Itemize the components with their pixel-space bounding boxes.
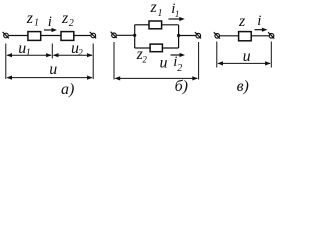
terminal left (diagram c) xyxy=(214,32,220,38)
svg-text:z: z xyxy=(150,0,158,16)
wire xyxy=(179,35,196,37)
svg-text:1: 1 xyxy=(34,18,39,29)
label a) xyxy=(61,81,74,98)
tick left (diagram c) xyxy=(216,42,218,68)
label u2 xyxy=(71,40,83,58)
resistor z2 (diagram b) xyxy=(150,44,162,52)
label i1 xyxy=(171,1,179,19)
terminal right (diagram b) xyxy=(195,32,201,38)
svg-text:u: u xyxy=(243,48,251,65)
label u (diagram c) xyxy=(243,48,251,65)
wire bottom branch right xyxy=(162,47,178,49)
wire xyxy=(220,35,238,37)
wire top branch left xyxy=(135,24,149,26)
current arrow i (diagram a) xyxy=(44,28,57,32)
tick right (diagram c) xyxy=(270,42,272,68)
dimension u1 (diagram a) xyxy=(6,53,52,57)
label i (diagram c) xyxy=(257,13,261,29)
current arrow i2 (diagram b) xyxy=(171,53,186,57)
terminal left (diagram b) xyxy=(111,32,117,38)
svg-text:2: 2 xyxy=(142,55,147,65)
resistor z2 (diagram a) xyxy=(61,32,74,41)
node left (diagram b) xyxy=(133,34,136,37)
current arrow i (diagram c) xyxy=(255,28,268,32)
dimension u (diagram b) xyxy=(115,76,199,80)
wire bottom branch left xyxy=(135,47,150,49)
terminal left (diagram a) xyxy=(3,32,9,38)
svg-text:2: 2 xyxy=(78,48,83,58)
label z1 xyxy=(26,10,39,29)
label i2 xyxy=(173,54,182,74)
label u (diagram b) xyxy=(160,55,168,72)
svg-text:а): а) xyxy=(61,81,74,98)
svg-text:u: u xyxy=(160,55,168,72)
svg-text:z: z xyxy=(238,13,246,30)
label z2 (diagram b) xyxy=(136,46,148,64)
svg-text:1: 1 xyxy=(26,48,31,59)
node right (diagram b) xyxy=(177,34,180,37)
resistor z1 (diagram a) xyxy=(28,32,41,41)
tick right (diagram a) xyxy=(92,44,94,80)
tick left (diagram a) xyxy=(5,44,7,80)
terminal right (diagram c) xyxy=(268,32,274,38)
label u (diagram a) xyxy=(49,61,57,78)
svg-text:i: i xyxy=(48,14,52,30)
current arrow i1 (diagram b) xyxy=(169,17,185,21)
svg-text:i: i xyxy=(257,13,261,29)
svg-text:u: u xyxy=(49,61,57,78)
terminal right (diagram a) xyxy=(90,32,96,38)
tick middle (diagram a) xyxy=(51,44,53,59)
dimension u2 (diagram a) xyxy=(53,53,93,57)
label z1 (diagram b) xyxy=(150,0,163,19)
resistor z (diagram c) xyxy=(239,32,252,41)
wire xyxy=(9,35,28,37)
svg-text:в): в) xyxy=(237,78,249,95)
tick right (diagram b) xyxy=(198,42,200,80)
wire top branch right xyxy=(162,24,179,26)
label i xyxy=(48,14,52,30)
tick left (diagram b) xyxy=(113,42,115,80)
label u1 xyxy=(18,40,31,59)
svg-text:1: 1 xyxy=(158,8,163,19)
svg-text:1: 1 xyxy=(175,9,180,19)
label v) xyxy=(237,78,249,95)
label b) xyxy=(175,78,188,95)
svg-text:2: 2 xyxy=(177,63,182,74)
wire vertical left xyxy=(134,25,136,48)
svg-text:б): б) xyxy=(175,78,188,95)
dimension u (diagram a) xyxy=(6,76,92,80)
resistor z1 (diagram b) xyxy=(149,21,162,29)
wire xyxy=(251,35,269,37)
svg-text:z: z xyxy=(61,10,69,27)
wire vertical right (diagram b) xyxy=(178,25,180,48)
label z (diagram c) xyxy=(238,13,246,30)
dimension u (diagram c) xyxy=(217,61,270,65)
label z2 xyxy=(61,10,74,29)
wire xyxy=(74,35,91,37)
svg-text:2: 2 xyxy=(69,18,74,29)
wire xyxy=(117,34,135,36)
svg-text:z: z xyxy=(26,10,34,27)
wire xyxy=(41,35,61,37)
